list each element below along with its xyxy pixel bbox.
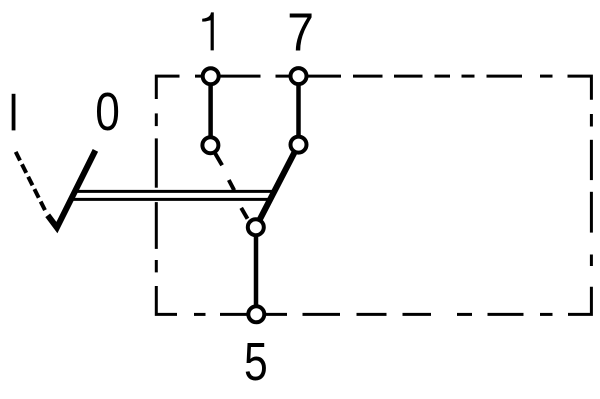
enclosure dash-dot border: bottom side <box>194 313 553 316</box>
switch contact open position (dashed) <box>215 153 248 219</box>
wire middle contact to terminal 5 <box>254 227 259 314</box>
actuator lever position 0 (solid) with pivot tick <box>48 150 96 227</box>
actuator coupling double line <box>75 190 275 193</box>
terminal circle 7 <box>291 68 307 84</box>
label 1 (hand-drawn, no foot serif) <box>202 12 214 50</box>
terminal circle 5 <box>248 306 264 322</box>
actuator lever position I (dashed) <box>16 152 45 210</box>
terminal circle 1 <box>203 68 219 84</box>
svg-text:7: 7 <box>287 2 314 62</box>
enclosure dash-dot border: left side <box>156 113 177 314</box>
contact circle below 7 <box>291 137 307 153</box>
contact circle below 1 <box>202 137 218 153</box>
middle contact circle <box>248 219 264 235</box>
wire terminal 1 to inner contact <box>208 76 213 145</box>
svg-text:5: 5 <box>244 332 268 392</box>
label I (position marker) <box>12 94 16 131</box>
switch contact bridge (closed, thick) <box>256 145 299 228</box>
enclosure dash-dot border: top side <box>156 76 591 100</box>
wire terminal 7 to inner contact <box>296 76 301 145</box>
svg-text:0: 0 <box>95 82 120 142</box>
enclosure dash-dot border: right side <box>568 114 591 314</box>
